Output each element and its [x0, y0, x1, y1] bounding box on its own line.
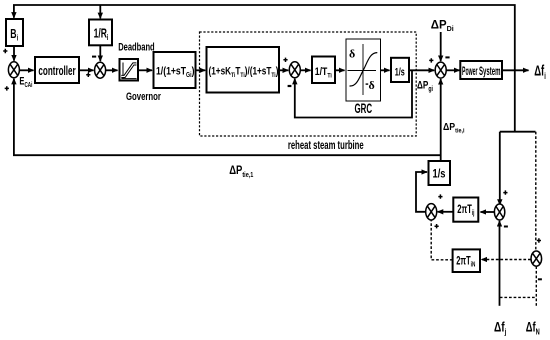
svg-text:Δfi: Δfi: [534, 62, 546, 81]
svg-text:Governor: Governor: [126, 90, 161, 103]
svg-text:GRC: GRC: [355, 102, 373, 117]
svg-text:Power: Power: [462, 65, 478, 78]
svg-text:reheat steam turbine: reheat steam turbine: [288, 139, 364, 152]
svg-text:δ: δ: [369, 78, 375, 92]
svg-text:controller: controller: [38, 64, 75, 78]
svg-text:Deadband: Deadband: [118, 41, 155, 54]
svg-text:1/s: 1/s: [395, 66, 405, 78]
svg-text:1/s: 1/s: [433, 169, 446, 181]
svg-text:System: System: [479, 65, 500, 78]
svg-text:1/Ri: 1/Ri: [94, 27, 109, 42]
svg-text:Δfj: Δfj: [494, 319, 506, 337]
svg-text:δ: δ: [349, 47, 355, 61]
